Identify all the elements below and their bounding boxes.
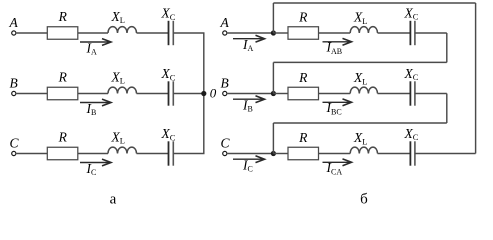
svg-text:IA: IA — [86, 40, 98, 56]
svg-text:0: 0 — [210, 86, 217, 101]
wire: branch AB return right vertical — [446, 33, 448, 62]
svg-text:R: R — [298, 10, 308, 25]
wire — [17, 153, 48, 155]
wire — [228, 153, 274, 155]
svg-text:XC: XC — [161, 126, 176, 142]
svg-text:XC: XC — [404, 126, 419, 142]
svg-text:C: C — [10, 135, 20, 150]
current arrow ICA (phase current) — [323, 161, 351, 163]
terminal A (star) — [12, 31, 16, 35]
wire — [173, 32, 204, 34]
wire — [273, 153, 288, 155]
current arrow IAB (phase current) — [323, 41, 351, 43]
wire: neutral bus (star) — [203, 33, 205, 154]
wire — [318, 153, 350, 155]
wire — [78, 32, 108, 34]
svg-text:R: R — [298, 70, 308, 85]
svg-text:B: B — [221, 75, 229, 90]
current arrow IC (delta line current) — [233, 158, 263, 160]
inductor XL (phase B, star) — [108, 87, 137, 93]
svg-text:R: R — [58, 129, 68, 144]
svg-text:XC: XC — [404, 6, 419, 22]
wire — [137, 93, 169, 95]
svg-text:XL: XL — [353, 70, 367, 86]
wire — [137, 32, 169, 34]
current arrow IBC (phase current) — [323, 101, 351, 103]
svg-text:XC: XC — [161, 6, 176, 22]
resistor R (branch AB, delta) — [288, 27, 319, 40]
wire: branch BC return horizontal — [273, 122, 446, 124]
current arrow IB (delta line current) — [233, 98, 263, 100]
current arrow IB (star) — [80, 102, 110, 104]
svg-text:XL: XL — [353, 130, 367, 146]
wire: node A rise to top bus — [272, 3, 274, 33]
current arrow IA (delta line current) — [233, 38, 263, 40]
resistor R (branch BC, delta) — [288, 87, 319, 100]
junction node B (delta) — [271, 91, 276, 96]
wire — [415, 32, 447, 34]
wire — [273, 93, 288, 95]
wire — [228, 93, 274, 95]
terminal A (delta) — [223, 31, 227, 35]
wire — [78, 93, 108, 95]
svg-text:IC: IC — [86, 161, 97, 177]
inductor XL (branch AB, delta) — [350, 27, 377, 33]
svg-text:B: B — [10, 75, 18, 90]
wire — [378, 93, 411, 95]
wire — [78, 153, 108, 155]
terminal B (star) — [12, 91, 16, 95]
svg-text:XC: XC — [161, 66, 176, 82]
svg-text:A: A — [220, 15, 230, 30]
resistor R (branch CA, delta) — [288, 147, 319, 160]
current arrow IC (star) — [80, 162, 110, 164]
inductor XL (phase A, star) — [108, 27, 137, 33]
svg-text:R: R — [58, 9, 68, 24]
wire: branch AB return horizontal — [273, 61, 446, 63]
wire — [137, 153, 169, 155]
wire — [228, 32, 274, 34]
wire: branch BC return right vertical — [446, 94, 448, 124]
terminal C (delta) — [223, 151, 227, 155]
svg-text:а: а — [110, 192, 117, 208]
wire — [17, 93, 48, 95]
inductor XL (phase C, star) — [108, 147, 137, 153]
svg-text:XL: XL — [111, 129, 125, 145]
capacitor XC (branch AB, delta) — [409, 21, 411, 45]
capacitor XC (branch CA, delta) — [409, 141, 411, 165]
terminal B (delta) — [223, 91, 227, 95]
svg-text:A: A — [9, 15, 19, 30]
capacitor XC (phase A, star) — [168, 21, 170, 45]
wire — [173, 153, 204, 155]
wire — [415, 153, 476, 155]
svg-text:IB: IB — [86, 101, 97, 117]
wire — [173, 93, 204, 95]
wire — [378, 153, 411, 155]
svg-text:XC: XC — [404, 66, 419, 82]
svg-text:XL: XL — [111, 9, 125, 25]
inductor XL (branch CA, delta) — [350, 147, 377, 153]
junction node A (delta) — [271, 30, 276, 35]
wire — [273, 32, 288, 34]
resistor R (phase A, star) — [47, 27, 78, 40]
svg-text:XL: XL — [111, 69, 125, 85]
svg-text:R: R — [58, 69, 68, 84]
resistor R (phase B, star) — [47, 87, 78, 100]
wire: branch BC return drop to node C — [272, 123, 274, 154]
svg-text:б: б — [360, 192, 368, 208]
wire: branch AB return drop to node B — [272, 62, 274, 93]
wire: top bus of delta circuit (node A to right side) — [273, 2, 475, 4]
wire — [318, 93, 350, 95]
capacitor XC (phase B, star) — [168, 81, 170, 105]
svg-text:R: R — [298, 130, 308, 145]
junction node 0 (star neutral) — [201, 91, 206, 96]
svg-text:C: C — [221, 135, 231, 150]
wire — [378, 32, 411, 34]
wire — [415, 93, 447, 95]
junction node C (delta) — [271, 151, 276, 156]
wire — [17, 32, 48, 34]
svg-text:XL: XL — [353, 10, 367, 26]
capacitor XC (phase C, star) — [168, 141, 170, 165]
terminal C (star) — [12, 151, 16, 155]
wire — [318, 32, 350, 34]
resistor R (phase C, star) — [47, 147, 78, 160]
inductor XL (branch BC, delta) — [350, 87, 377, 93]
current arrow IA (star) — [80, 41, 110, 43]
wire: outer right vertical of delta (branch C-A return) — [475, 3, 477, 154]
capacitor XC (branch BC, delta) — [409, 81, 411, 105]
